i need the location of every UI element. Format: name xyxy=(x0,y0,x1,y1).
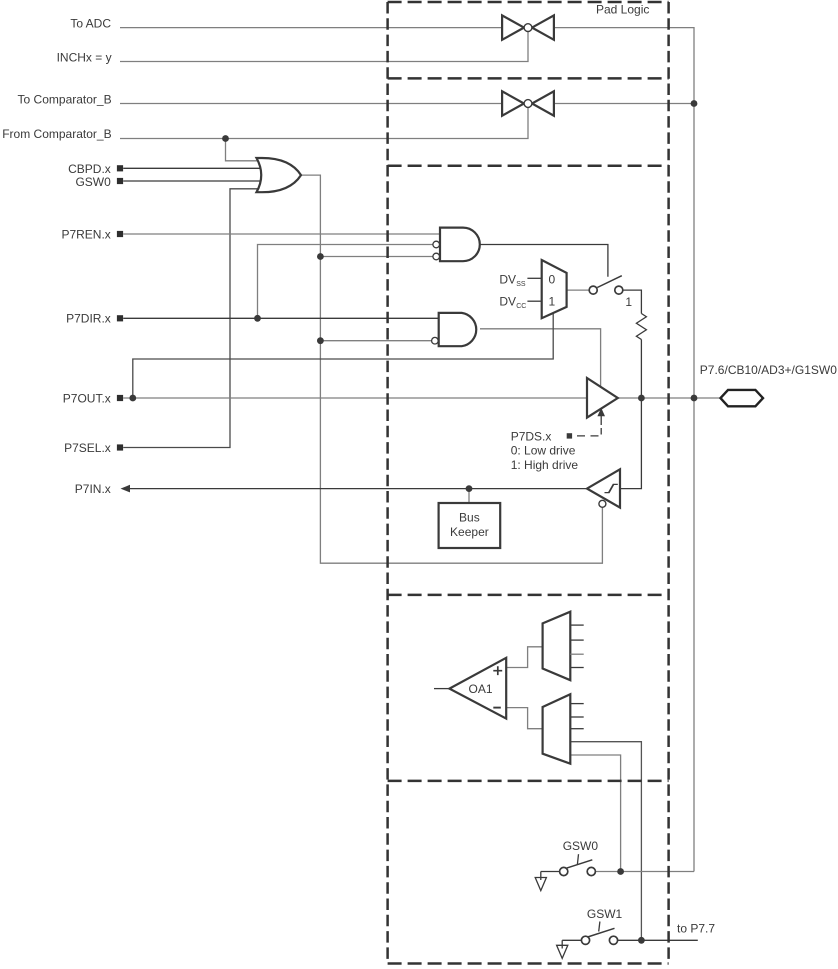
pad logic outer dashed box: left edge xyxy=(386,2,389,964)
svg-text:1: 1 xyxy=(625,295,632,309)
terminal GSW0 xyxy=(117,178,123,184)
svg-text:P7REN.x: P7REN.x xyxy=(61,227,110,241)
wire OA1 input stub xyxy=(434,688,450,690)
transmission gate T2 (Comparator_B) xyxy=(502,91,554,115)
pad logic outer dashed box: top edge xyxy=(388,1,669,4)
svg-text:0: Low drive: 0: Low drive xyxy=(511,444,576,458)
wire From Comparator_B stub to OR input xyxy=(226,139,273,161)
node P7DIR branch xyxy=(254,315,261,322)
node pad net at bus xyxy=(691,395,698,402)
svg-text:P7SEL.x: P7SEL.x xyxy=(64,441,111,455)
svg-text:GSW1: GSW1 xyxy=(587,907,623,921)
svg-text:OA1: OA1 xyxy=(469,682,493,696)
transmission gate T1 (ADC) xyxy=(502,15,554,39)
wire NAND2 output to driver enable xyxy=(480,329,601,388)
terminal P7SEL.x xyxy=(117,444,123,450)
switch GSW0 xyxy=(535,854,595,890)
svg-text:P7IN.x: P7IN.x xyxy=(75,482,111,496)
svg-text:GSW0: GSW0 xyxy=(75,175,111,189)
output driver U4 xyxy=(587,378,618,418)
svg-text:to P7.7: to P7.7 xyxy=(677,921,715,935)
nand-gate U2 (REN logic) xyxy=(433,228,480,262)
terminal CBPD.x xyxy=(117,165,123,171)
mux M3 (OA1 - input select) xyxy=(543,694,584,764)
switch S1 (pull resistor enable) xyxy=(589,276,623,294)
svg-text:SS: SS xyxy=(516,281,526,288)
svg-text:CC: CC xyxy=(516,303,526,310)
P7DS.x drive strength arrow xyxy=(567,408,605,439)
nand-gate U3 (DIR logic) xyxy=(432,313,477,346)
wire driver output to pad xyxy=(617,397,721,399)
node From Comparator_B junction xyxy=(222,135,229,142)
svg-text:CBPD.x: CBPD.x xyxy=(68,162,111,176)
svg-text:1: 1 xyxy=(549,295,556,309)
wire bus keeper stub xyxy=(468,489,470,503)
wire P7DIR branch to NAND1 input 2 xyxy=(258,245,438,319)
node GSW0 junction xyxy=(617,868,624,875)
wire INCHx = y xyxy=(120,28,528,62)
node P7IN bus keeper junction xyxy=(466,485,473,492)
mux M1 DVss/DVcc xyxy=(542,260,567,318)
wire P7REN.x xyxy=(123,233,441,235)
svg-text:GSW0: GSW0 xyxy=(563,839,599,853)
op-amp OA1 xyxy=(449,658,506,719)
node OR output to NAND1 xyxy=(317,253,324,260)
svg-text:DV: DV xyxy=(499,272,516,286)
pad logic outer dashed box: right edge xyxy=(667,2,670,964)
input schmitt buffer U5 xyxy=(587,469,620,507)
dashed divider 1 xyxy=(388,77,669,80)
svg-text:P7.6/CB10/AD3+/G1SW0: P7.6/CB10/AD3+/G1SW0 xyxy=(700,363,837,377)
svg-text:Pad Logic: Pad Logic xyxy=(596,3,649,17)
pad P7.6 hexagon xyxy=(721,390,764,406)
dashed divider 2 xyxy=(388,165,669,168)
node OR output to NAND2 xyxy=(317,337,324,344)
wire OA1 - input to bottom mux xyxy=(506,708,543,729)
wire OR output xyxy=(301,175,602,563)
node comparator right bus junction xyxy=(691,100,698,107)
terminal P7DIR.x xyxy=(117,315,123,321)
svg-text:0: 0 xyxy=(549,272,556,286)
arrow P7IN.x xyxy=(121,485,131,493)
wire switch to resistor to pad node to schmitt input xyxy=(623,290,642,313)
wire bottom mux to GSW0 xyxy=(570,755,620,872)
resistor xyxy=(636,314,646,340)
node P7OUT branch xyxy=(129,395,136,402)
wire To Comparator_B left xyxy=(120,103,503,105)
svg-text:P7OUT.x: P7OUT.x xyxy=(63,391,111,405)
wire OA1 + input to top mux xyxy=(506,647,543,668)
node pad net at resistor xyxy=(638,395,645,402)
wire From Comparator_B xyxy=(120,104,528,139)
wire P7OUT.x xyxy=(123,397,587,399)
wire To ADC left xyxy=(120,27,503,29)
wire OR output branch to NAND1 input 3 xyxy=(320,256,437,258)
wire To ADC right to vertical bus xyxy=(554,28,695,872)
dashed divider 4 xyxy=(388,780,669,783)
svg-text:1: High drive: 1: High drive xyxy=(511,458,579,472)
or-gate U1 xyxy=(257,158,302,192)
node GSW1 junction xyxy=(638,937,645,944)
wire pad node down to schmitt input xyxy=(620,398,641,489)
wire mux select from P7OUT xyxy=(133,313,553,398)
wire To Comparator_B right xyxy=(554,103,695,105)
mux M2 (OA1 + input select) xyxy=(543,612,584,681)
wire P7IN.x xyxy=(124,488,588,490)
bus keeper xyxy=(439,503,501,548)
wire P7SEL.x to OR input xyxy=(123,189,272,448)
wire OR output branch to NAND2 input 2 xyxy=(320,340,437,342)
terminal P7REN.x xyxy=(117,231,123,237)
terminal P7OUT.x xyxy=(117,395,123,401)
svg-text:To ADC: To ADC xyxy=(70,17,111,31)
wire GSW1 output to P7.7 xyxy=(618,939,698,941)
svg-text:INCHx = y: INCHx = y xyxy=(57,51,112,65)
wire bottom mux to GSW1 xyxy=(570,742,641,941)
dashed divider 3 xyxy=(388,594,669,597)
wire resistor to pad node xyxy=(640,340,642,399)
svg-text:Bus: Bus xyxy=(459,510,480,524)
label DVcc xyxy=(499,295,541,311)
switch GSW1 xyxy=(557,922,618,959)
svg-text:DV: DV xyxy=(499,295,516,309)
pad logic outer dashed box: bottom edge xyxy=(388,962,669,965)
wire NAND1 output to switch control xyxy=(480,245,608,277)
wire GSW0 output xyxy=(595,871,694,873)
svg-text:P7DIR.x: P7DIR.x xyxy=(66,312,111,326)
wire P7DIR.x xyxy=(123,317,439,319)
svg-text:Keeper: Keeper xyxy=(450,525,489,539)
svg-text:To Comparator_B: To Comparator_B xyxy=(18,92,112,106)
svg-text:From Comparator_B: From Comparator_B xyxy=(2,127,111,141)
svg-text:P7DS.x: P7DS.x xyxy=(511,430,552,444)
label DVss xyxy=(499,272,541,288)
wire GSW0 input xyxy=(123,180,272,182)
wire CBPD.x xyxy=(123,167,272,169)
wire mux1 output to switch xyxy=(567,289,590,291)
